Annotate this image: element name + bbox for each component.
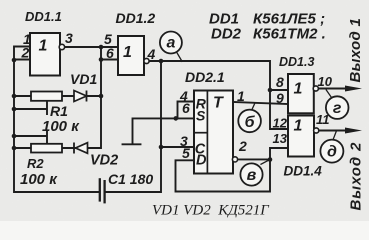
svg-text:1: 1 — [39, 38, 48, 55]
svg-text:100 к: 100 к — [20, 171, 58, 188]
svg-text:D: D — [196, 153, 207, 169]
svg-text:2: 2 — [238, 138, 247, 154]
svg-text:DD1.3: DD1.3 — [279, 55, 314, 69]
svg-text:1: 1 — [294, 118, 303, 135]
svg-text:д: д — [327, 144, 337, 161]
svg-text:4: 4 — [147, 46, 156, 62]
svg-text:3: 3 — [65, 30, 73, 46]
svg-text:R2: R2 — [27, 156, 44, 171]
svg-text:T: T — [213, 95, 224, 112]
svg-text:DD2.1: DD2.1 — [185, 69, 225, 85]
svg-text:DD1.1: DD1.1 — [25, 9, 62, 24]
svg-text:Выход 1: Выход 1 — [347, 18, 364, 83]
svg-text:К561ТМ2 .: К561ТМ2 . — [253, 26, 326, 43]
svg-text:5: 5 — [182, 145, 190, 161]
svg-text:г: г — [333, 100, 342, 117]
svg-text:6: 6 — [182, 100, 190, 116]
svg-text:S: S — [196, 108, 206, 124]
svg-text:6: 6 — [106, 45, 114, 61]
svg-text:VD1: VD1 — [70, 71, 97, 87]
svg-text:а: а — [166, 35, 175, 52]
svg-text:C1 180: C1 180 — [108, 171, 153, 187]
svg-text:13: 13 — [273, 131, 288, 146]
svg-text:DD2: DD2 — [211, 26, 242, 43]
svg-text:100 к: 100 к — [42, 118, 80, 135]
svg-text:12: 12 — [273, 116, 288, 131]
svg-text:2: 2 — [21, 45, 30, 61]
svg-text:DD1.2: DD1.2 — [116, 10, 156, 26]
svg-text:VD2: VD2 — [90, 153, 118, 169]
svg-text:1: 1 — [123, 44, 132, 61]
svg-text:1: 1 — [237, 88, 245, 104]
svg-text:10: 10 — [318, 74, 333, 89]
svg-text:8: 8 — [276, 74, 284, 90]
svg-text:1: 1 — [294, 81, 303, 98]
svg-text:DD1.4: DD1.4 — [284, 164, 323, 179]
svg-text:в: в — [247, 167, 257, 184]
svg-text:R1: R1 — [50, 103, 68, 119]
svg-text:9: 9 — [276, 90, 284, 106]
svg-text:VD1 VD2 КД521Г: VD1 VD2 КД521Г — [152, 203, 270, 219]
svg-text:б: б — [245, 114, 256, 131]
svg-text:11: 11 — [316, 112, 330, 127]
svg-text:Выход 2: Выход 2 — [348, 142, 365, 211]
